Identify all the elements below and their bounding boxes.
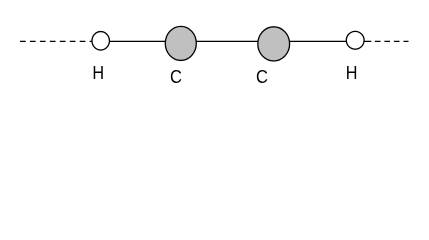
wire: bond H1-C1 (108, 40, 167, 42)
wire: left dashed bond (20, 40, 93, 42)
svg-text:H: H (346, 63, 358, 83)
wire: bond C2-H2 (289, 40, 348, 42)
molecular chain diagram (0, 0, 429, 99)
atom H2 (white circle) (346, 31, 364, 49)
atom H1 (white circle) (92, 32, 110, 51)
wire: right dashed bond (364, 40, 408, 42)
svg-text:C: C (170, 67, 182, 87)
atom C1 (gray circle) (165, 26, 196, 60)
atom C2 (gray circle) (258, 27, 290, 61)
wire: bond C1-C2 (195, 40, 259, 42)
svg-text:C: C (256, 67, 268, 87)
svg-text:H: H (92, 63, 104, 83)
